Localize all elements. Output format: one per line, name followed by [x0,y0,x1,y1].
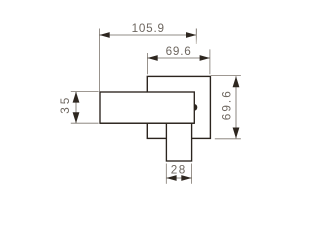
svg-text:28: 28 [171,164,187,177]
svg-text:35: 35 [59,95,72,114]
svg-text:69.6: 69.6 [221,89,234,120]
svg-text:105.9: 105.9 [132,22,165,35]
svg-text:69.6: 69.6 [166,45,192,58]
